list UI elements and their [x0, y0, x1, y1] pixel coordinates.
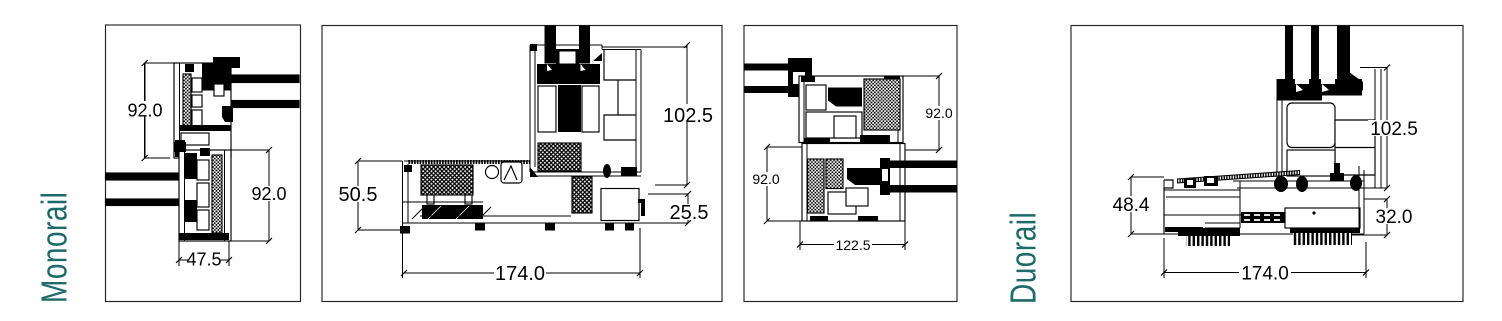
sill dashed band (black with white dashes) — [1241, 212, 1285, 223]
sill right edge — [1358, 166, 1360, 228]
sash top edge — [530, 44, 602, 46]
glazing unit mid left: pane 1 — [106, 173, 193, 180]
dimension 92.0 right — [903, 73, 942, 153]
sash T stipple — [864, 79, 900, 130]
interlock bits — [804, 138, 830, 146]
sash A lower chambers — [181, 133, 209, 145]
glazing pane 1 — [1285, 26, 1293, 80]
glazing pane 3 — [1337, 26, 1350, 83]
panel 4 border — [1071, 26, 1463, 302]
svg-text:48.4: 48.4 — [1113, 195, 1150, 216]
dimension 47.5 bottom — [176, 241, 232, 266]
glazing unit top left: pane 2 — [744, 86, 792, 93]
sash thermal stipple — [538, 143, 581, 171]
interlock bits — [174, 142, 186, 152]
dimension 48.4 — [1128, 174, 1176, 237]
sash bottom gaskets — [530, 167, 538, 177]
panel 3 border — [744, 26, 957, 302]
sash corner block — [530, 44, 537, 51]
panel 1 border — [106, 25, 301, 302]
sash B mid chambers — [197, 160, 209, 180]
sill webs — [486, 166, 499, 179]
sill narrow stipple — [572, 177, 592, 213]
pocket white gaps — [1295, 79, 1309, 84]
sash A outline — [174, 63, 231, 158]
sash T glazing bead (black) — [828, 88, 862, 107]
glazing pane vertical 2 — [579, 26, 590, 64]
corner arrow (black) — [1349, 72, 1363, 91]
sash big chamber — [1287, 103, 1335, 148]
glazing unit top right: pane 2 — [212, 101, 299, 108]
glazing unit mid left: pane 2 — [106, 199, 193, 206]
dimension 122.5 — [797, 221, 908, 250]
glazing pocket bottom (black) — [880, 158, 890, 195]
dimension 25.5 — [640, 191, 691, 226]
comb strip 1 — [1178, 228, 1240, 236]
sash chamber right of core — [582, 86, 599, 132]
glazing unit bottom right: pane 1 — [888, 161, 957, 169]
sill bottom left band — [1165, 227, 1203, 232]
sash B glazing bead (black) — [847, 168, 880, 185]
sash chamber left of core — [538, 86, 556, 132]
sash outline left wall — [529, 45, 531, 172]
sash B bottom gaskets — [810, 216, 828, 221]
svg-text:92.0: 92.0 — [752, 171, 779, 187]
svg-text:47.5: 47.5 — [186, 250, 221, 270]
sash lower chamber — [1287, 150, 1335, 176]
sill stipple legs — [427, 195, 434, 204]
svg-text:92.0: 92.0 — [127, 101, 162, 121]
dimension 174.0 — [1161, 238, 1369, 278]
sill left chamber — [1166, 196, 1240, 198]
glazing unit top right: pane 1 — [212, 75, 299, 83]
comb strip 2 — [1290, 228, 1360, 233]
sash glazing core (black) — [558, 85, 581, 132]
svg-text:92.0: 92.0 — [251, 184, 286, 204]
sill top serrated edge — [408, 160, 530, 164]
sash head gasket block — [537, 64, 600, 84]
svg-text:25.5: 25.5 — [670, 202, 709, 224]
svg-text:102.5: 102.5 — [663, 105, 713, 127]
sill right chamber — [601, 189, 639, 221]
glazing pane 2 — [1311, 26, 1319, 80]
sash T outline — [799, 76, 903, 143]
glazing spacer mid left — [184, 179, 193, 200]
sash A top cap — [185, 64, 194, 72]
panel 2 border — [322, 26, 722, 302]
sash B bottom band — [179, 233, 229, 240]
sash right chambers — [604, 50, 636, 141]
dimension 92.0 right — [229, 147, 272, 244]
dimension 92.0 left — [142, 60, 174, 161]
sash bottom edge — [1233, 180, 1364, 182]
dimension 174.0 — [401, 228, 643, 278]
glazing pane vertical 1 — [545, 26, 557, 64]
sash B thermal stipple — [212, 155, 222, 233]
sill left wall — [1164, 180, 1173, 234]
sash A top hat — [213, 57, 240, 68]
dimension 102.5 — [1360, 65, 1390, 192]
glazing spacer top right — [209, 81, 226, 102]
glazing pocket (black) — [1277, 79, 1363, 96]
sill slope serration — [1177, 171, 1300, 184]
sill under-sash lines — [530, 171, 641, 173]
sill thermal stipple — [421, 165, 473, 195]
sash right wall — [635, 50, 637, 173]
dimension 32.0 — [1352, 196, 1390, 238]
svg-text:92.0: 92.0 — [925, 105, 952, 121]
dimension 102.5 — [602, 42, 690, 188]
sash B outline — [802, 144, 905, 222]
interlock band — [179, 125, 231, 131]
sash B chambers — [828, 192, 856, 214]
sash outline — [1276, 79, 1278, 181]
sill right chamber box — [1285, 208, 1360, 228]
sash step chamber — [1335, 120, 1375, 175]
sash B outline — [179, 150, 231, 241]
sash A thermal stipple — [183, 74, 191, 127]
sash A gasket lump — [222, 106, 233, 122]
sill bottom line — [1164, 233, 1364, 235]
sash B stipple 2 — [826, 159, 843, 189]
sash B stipple 1 — [808, 159, 825, 213]
svg-text:122.5: 122.5 — [835, 237, 870, 253]
svg-text:50.5: 50.5 — [339, 184, 378, 206]
sill mid line — [403, 201, 484, 203]
sash A glazing pocket (black) — [202, 64, 231, 91]
sash bottom gasket blobs — [1274, 176, 1288, 192]
glazing pocket top (black) — [788, 58, 812, 97]
glazing spacer — [556, 49, 579, 67]
glazing unit bottom right: pane 2 — [888, 185, 957, 193]
sash corner flag — [593, 53, 602, 61]
label Duorail — [1003, 212, 1045, 304]
sill right hook (black) — [638, 199, 645, 216]
glazing unit top left: pane 1 — [744, 64, 792, 71]
dimension 92.0 left — [764, 144, 802, 224]
sash B glazing pocket — [184, 153, 197, 179]
sill bottom line — [403, 222, 641, 224]
sill feet — [400, 226, 410, 234]
sill left wall — [402, 161, 404, 226]
svg-text:174.0: 174.0 — [1241, 264, 1289, 285]
sill gasket cups — [1184, 178, 1196, 188]
sash T chambers — [806, 85, 826, 110]
svg-text:32.0: 32.0 — [1376, 207, 1413, 228]
sash T top cap — [801, 76, 815, 82]
svg-text:174.0: 174.0 — [495, 263, 545, 285]
dimension 50.5 — [355, 158, 403, 233]
svg-text:102.5: 102.5 — [1370, 119, 1418, 140]
sill rubber block (black) — [422, 205, 483, 219]
label Monorail — [34, 192, 76, 303]
sash A mid chambers — [192, 78, 202, 92]
